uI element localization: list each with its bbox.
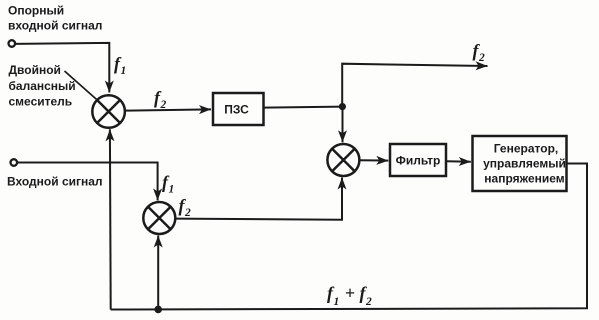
block ПЗС bbox=[213, 93, 264, 125]
svg-text:Генератор,: Генератор, bbox=[494, 142, 559, 156]
wire: node J1 up and right to f2 output bbox=[342, 64, 487, 107]
wire: M1 output to ПЗС bbox=[125, 109, 211, 110]
wire: M2 output to mixer M3 bottom bbox=[175, 178, 342, 220]
callout leader line bbox=[65, 71, 98, 101]
wire: feedback up to mixer M1 bottom bbox=[109, 129, 112, 309]
svg-text:Фильтр: Фильтр bbox=[396, 154, 441, 168]
svg-text:смеситель: смеситель bbox=[9, 95, 73, 109]
wire: signal input to mixer M2 top bbox=[17, 163, 157, 201]
node J2 bbox=[154, 306, 162, 314]
wire: Фильтр to Генератор bbox=[446, 160, 471, 163]
svg-text:Опорный: Опорный bbox=[8, 4, 64, 18]
svg-text:f2: f2 bbox=[473, 41, 486, 65]
wire: reference input to mixer M1 top bbox=[15, 43, 109, 93]
wire: node J2 up to mixer M2 bottom bbox=[157, 236, 159, 310]
wire: M3 output to Фильтр bbox=[360, 159, 389, 161]
svg-text:f1: f1 bbox=[162, 172, 174, 196]
svg-text:ПЗС: ПЗС bbox=[224, 103, 249, 117]
block Генератор (VCO) bbox=[473, 136, 567, 191]
svg-text:f2: f2 bbox=[154, 88, 167, 112]
mixer M1 (double balanced mixer) bbox=[92, 95, 125, 128]
svg-text:напряжением: напряжением bbox=[484, 172, 565, 186]
svg-text:Двойной: Двойной bbox=[9, 63, 61, 77]
wire: node J1 down to mixer M3 top bbox=[342, 107, 344, 143]
svg-text:балансный: балансный bbox=[9, 79, 76, 93]
mixer M3 bbox=[327, 144, 359, 176]
terminal: signal input bbox=[11, 159, 18, 166]
svg-text:f1: f1 bbox=[114, 54, 126, 78]
node J1 bbox=[339, 103, 346, 110]
svg-text:f2: f2 bbox=[179, 196, 192, 220]
terminal: reference input bbox=[9, 40, 16, 47]
mixer M2 bbox=[143, 202, 175, 234]
block Фильтр bbox=[390, 144, 446, 176]
svg-text:управляемый: управляемый bbox=[483, 157, 566, 171]
wire: VCO output feedback (right, down, along bottom) bbox=[111, 164, 587, 310]
svg-text:Входной сигнал: Входной сигнал bbox=[7, 175, 103, 189]
svg-text:f1 + f2: f1 + f2 bbox=[327, 283, 372, 308]
svg-text:входной сигнал: входной сигнал bbox=[8, 19, 102, 33]
wire: ПЗС output to node J1 bbox=[264, 107, 343, 108]
